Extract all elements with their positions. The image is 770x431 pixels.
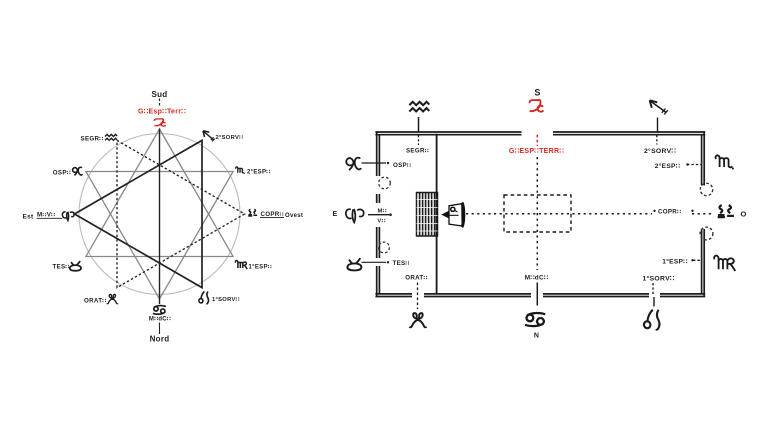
line below aquarius [418, 117, 420, 132]
svg-text:M∷: M∷ [377, 209, 386, 215]
glyph gemini bottom [410, 313, 427, 327]
glyph virgo 1ESP [235, 261, 247, 270]
glyph cancer MdC [153, 306, 166, 314]
svg-text:1°ESP∷: 1°ESP∷ [249, 264, 272, 270]
dashed segment below Sud [159, 99, 161, 108]
column circle right top [700, 183, 712, 195]
svg-text:E: E [333, 211, 338, 218]
svg-text:Nord: Nord [150, 335, 170, 344]
red dashes below S door [536, 135, 538, 146]
line below MdC [536, 283, 538, 306]
triangle T4 SEGR-COPR-ORAT (dashed) [117, 140, 245, 287]
glyph leo 1SORV [199, 292, 209, 304]
glyph gemini ORAT [107, 294, 118, 303]
glyph pisces left [346, 158, 361, 170]
glyph leo bottom [644, 310, 660, 330]
walls [375, 131, 705, 297]
svg-text:OSP∷: OSP∷ [393, 162, 411, 169]
svg-text:M∷V∷: M∷V∷ [37, 212, 55, 219]
glyph virgo right [714, 256, 735, 271]
glyph aquarius SEGR [105, 134, 117, 140]
svg-text:1°SORV∷: 1°SORV∷ [212, 297, 240, 303]
partition line [436, 134, 438, 294]
left wall double lines [376, 131, 378, 297]
column circle left top [379, 177, 391, 189]
glyph scorpio 2ESP [236, 167, 245, 174]
svg-text:M∷dC∷: M∷dC∷ [149, 317, 171, 323]
triangle T1 Sud-1ESP-TES (gray) [86, 129, 233, 257]
glyph cancer bottom [525, 313, 545, 326]
svg-text:ORAT∷: ORAT∷ [84, 298, 107, 305]
glyph taurus left [347, 258, 361, 270]
master seat icon [441, 203, 464, 228]
svg-text:O: O [741, 210, 747, 219]
line below arrow [657, 118, 659, 132]
hatched screen [417, 193, 438, 237]
label TES + line [362, 261, 387, 263]
svg-text:SEGR∷: SEGR∷ [81, 136, 104, 143]
svg-text:Sud: Sud [151, 90, 167, 99]
svg-text:1°ESP∷: 1°ESP∷ [662, 257, 688, 265]
glyph scorpio right [716, 155, 734, 169]
svg-text:2°SORV∷: 2°SORV∷ [216, 135, 244, 141]
svg-text:G∷ESP∷TERR∷: G∷ESP∷TERR∷ [509, 148, 564, 155]
svg-text:TES∷: TES∷ [393, 260, 410, 267]
right wall double lines [703, 131, 705, 297]
svg-text:G∷Esp∷Terr∷: G∷Esp∷Terr∷ [138, 109, 186, 116]
triangle T3 2ESP-OSP-Nord (gray) [86, 172, 233, 300]
svg-text:Est: Est [23, 214, 35, 221]
dotted axis horizontal [466, 213, 652, 215]
glyph libra COPR [248, 209, 257, 216]
svg-text:2°SORV∷: 2°SORV∷ [644, 147, 676, 155]
svg-text:V∷: V∷ [377, 219, 385, 225]
line below MdC label [159, 323, 161, 335]
glyph capricorn red [154, 119, 165, 126]
svg-text:OSP∷: OSP∷ [53, 170, 71, 177]
svg-text:ORAT∷: ORAT∷ [405, 275, 428, 282]
glyph libra right [718, 205, 734, 217]
svg-text:COPR∷: COPR∷ [261, 211, 284, 218]
svg-text:S: S [534, 88, 540, 98]
svg-text:1°SORV∷: 1°SORV∷ [642, 275, 674, 283]
svg-text:2°ESP∷: 2°ESP∷ [247, 170, 270, 176]
column circle right bottom [700, 227, 713, 240]
top wall double lines [375, 131, 705, 133]
column circle left bottom [379, 242, 390, 253]
axis vertical line [159, 129, 161, 305]
glyph aries MV [62, 212, 74, 221]
svg-text:M∷dC∷: M∷dC∷ [525, 275, 548, 282]
label 2SORV + dashes [656, 135, 658, 145]
triangle T2 2SORV-1SORV-MV (black) [75, 140, 203, 287]
glyph capricorn red big [530, 100, 544, 112]
svg-text:COPR∷: COPR∷ [658, 208, 681, 215]
glyph aries left [346, 209, 364, 222]
glyph pisces OSP [73, 167, 83, 175]
arrow sagittarius top right [650, 100, 668, 114]
circle zodiac [79, 134, 240, 295]
svg-text:2°ESP∷: 2°ESP∷ [655, 162, 681, 170]
glyph taurus TES [70, 261, 81, 271]
svg-text:TES∷: TES∷ [53, 264, 70, 271]
svg-text:N: N [534, 333, 539, 340]
label COPR [653, 210, 655, 212]
svg-text:Ovest: Ovest [285, 213, 303, 219]
bottom wall double lines [375, 293, 705, 295]
arrow sagittarius 2SORV [203, 131, 215, 142]
label OSP + line [362, 162, 387, 164]
svg-text:SEGR∷: SEGR∷ [406, 148, 429, 155]
label SEGR + dashes [418, 135, 420, 145]
glyph aquarius top [409, 102, 429, 112]
dotted axis vertical [536, 157, 538, 270]
dashed square pavement [504, 195, 571, 232]
